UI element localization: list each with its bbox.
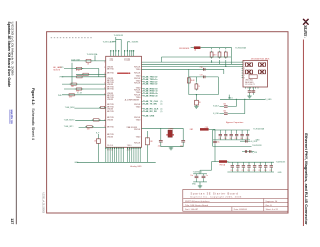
resistor R35 [195, 83, 200, 91]
capacitor C49 plates [202, 175, 209, 178]
junction c34 riser [244, 99, 245, 100]
wire 12v down [199, 170, 201, 174]
wire r33 down [225, 60, 227, 66]
wire term drop 1 [211, 48, 213, 50]
wire stub y141 [240, 140, 251, 142]
ferrite bead FB1 [194, 46, 201, 49]
wire r30 vertical bottom [97, 143, 99, 162]
capacitor C31 [200, 75, 205, 79]
wire VDD33 vertical a [115, 37, 117, 56]
svg-text:C56: C56 [264, 170, 267, 172]
svg-text:C39: C39 [219, 138, 222, 140]
svg-text:XILINX: XILINX [303, 24, 308, 37]
wire row6 [62, 94, 106, 96]
wire rowB bottom rail [227, 171, 274, 173]
wire caps top rail [193, 173, 207, 175]
ground 12v caps [198, 185, 202, 188]
svg-text:Schematic Sheet 4: Schematic Sheet 4 [31, 108, 35, 140]
svg-text:TL4E_MDIO: TL4E_MDIO [64, 119, 75, 121]
title block h-line 2 [183, 202, 288, 204]
connector J8 magjack body [243, 60, 268, 87]
ferrite bead FB2 [200, 128, 209, 131]
svg-text:TXD0: TXD0 [136, 69, 141, 71]
junction RXP [225, 66, 226, 67]
wire c33 left [219, 106, 224, 108]
svg-text:C53: C53 [247, 170, 250, 172]
svg-text:VDD33: VDD33 [107, 120, 113, 122]
wire vddrx vertical [126, 42, 128, 57]
wire MII stub ticks [142, 77, 143, 116]
red label c38 values [205, 127, 208, 131]
transformer coils inside J8 [246, 62, 266, 74]
svg-text:TL4E_TXD<3>: TL4E_TXD<3> [143, 83, 158, 86]
U5 top pin numbers [110, 58, 130, 62]
svg-text:LED1 LED2: LED1 LED2 [245, 80, 253, 82]
svg-text:VDD33: VDD33 [107, 137, 113, 139]
svg-text:22p: 22p [158, 145, 161, 147]
wire RXN [142, 68, 224, 70]
wire TX step riser [161, 57, 163, 62]
wire stub y146 [213, 145, 252, 147]
wire r37 top [146, 131, 148, 139]
title block h-line 1 [183, 198, 288, 200]
capacitor C30 [200, 67, 205, 71]
svg-text:C34: C34 [223, 111, 226, 113]
svg-text:TL4E_TX_EN: TL4E_TX_EN [143, 103, 157, 106]
svg-text:C51: C51 [236, 170, 239, 172]
svg-text:RXCLK: RXCLK [134, 72, 141, 74]
svg-text:TL4E_TX_CLK: TL4E_TX_CLK [143, 100, 158, 103]
wire fb1 left [191, 47, 194, 49]
resistor R29 [85, 126, 93, 131]
svg-text:E_LNK: E_LNK [213, 113, 219, 115]
svg-text:UG230 (v1.0) March 9, 2006: UG230 (v1.0) March 9, 2006 [11, 22, 15, 77]
wire 12v horiz [200, 169, 212, 171]
svg-text:.1u: .1u [206, 175, 208, 177]
U5 bottom pin numbers inside [107, 145, 132, 147]
svg-text:C40: C40 [224, 138, 227, 140]
svg-text:L_VDDRX: L_VDDRX [130, 42, 139, 44]
ferrite bead FB3 [219, 160, 227, 163]
svg-text:J8 10/100 RJ45 JACK: J8 10/100 RJ45 JACK [251, 57, 270, 60]
svg-text:UG230_c4_02_030906: UG230_c4_02_030906 [42, 193, 44, 214]
net label suffix marks [160, 101, 163, 113]
svg-text:1 2 3 4 5 6 7 8: 1 2 3 4 5 6 7 8 [245, 84, 255, 86]
wire TXP [142, 61, 244, 63]
wire vccaux stub [112, 41, 115, 43]
J8 lower pin marks [245, 80, 255, 87]
wire c33 right [228, 106, 237, 108]
wire chassis vertical [228, 95, 230, 100]
svg-text:VDD33: VDD33 [107, 84, 113, 86]
svg-text:Doc#: 500-087: Doc#: 500-087 [185, 209, 199, 211]
wire vertical join x72 [71, 63, 73, 84]
svg-text:RXCLK: RXCLK [134, 83, 141, 85]
svg-text:C50: C50 [231, 170, 234, 172]
svg-text:TL4E_MDC: TL4E_MDC [65, 107, 76, 109]
wire row5 [64, 88, 106, 90]
svg-text:TL4VDD33A: TL4VDD33A [235, 46, 246, 49]
faint revision note row [51, 37, 92, 38]
capacitor C36a [245, 150, 246, 153]
wire r37 bottom [146, 145, 148, 163]
wire xtal left vert [160, 128, 162, 140]
svg-text:VDD33: VDD33 [107, 99, 113, 101]
wire fb3 right [227, 161, 229, 164]
wire fb2 drop upper [214, 129, 216, 141]
wire r30 vertical top [97, 134, 99, 139]
wire rbias right vertical [217, 77, 219, 95]
wire rbias drop corner [223, 69, 225, 74]
svg-text:TL4VDD33: TL4VDD33 [276, 161, 285, 163]
svg-text:TL4VDD33A: TL4VDD33A [87, 53, 98, 56]
wire rail drop to jack [231, 48, 233, 65]
junction c33 riser [236, 99, 237, 100]
wire top rail [200, 47, 231, 49]
capacitor C46 plates [158, 141, 163, 148]
wire rowA feed [212, 130, 214, 146]
crystal X1 side pins [166, 134, 174, 135]
svg-text:C41: C41 [229, 138, 232, 140]
wire c34 riser [244, 99, 246, 113]
wire xtal gnd bar [161, 146, 183, 148]
ground crystal [169, 147, 173, 150]
wire fb3 left [212, 161, 220, 163]
wire term drop 2 [219, 48, 221, 50]
wire c48 vb [196, 178, 198, 182]
capacitor C47 plates [180, 141, 185, 148]
resistor R34 [187, 76, 194, 84]
svg-text:SDI/O B: SDI/O B [53, 69, 60, 71]
wire rbias mid vertical [195, 77, 197, 82]
svg-text:Sheet: 4 of 11: Sheet: 4 of 11 [266, 208, 279, 211]
wire mdc [74, 107, 105, 109]
svg-text:Date: 03/09/06: Date: 03/09/06 [234, 208, 248, 211]
svg-text:E_GND: E_GND [265, 99, 272, 101]
capacitor row A (C39-C44) [219, 130, 250, 140]
wire j8 shield drop a [249, 87, 251, 90]
svg-text:E_TX: E_TX [77, 92, 82, 94]
wire chassis rail [220, 98, 265, 100]
capacitor C35 [252, 91, 256, 92]
wire feed vertical x95 [94, 55, 96, 61]
svg-text:Spartan 3E Starter Board: Spartan 3E Starter Board [191, 192, 239, 196]
wire c34 right [228, 113, 245, 115]
header rule (red) [302, 40, 304, 227]
svg-text:Bypass Capacitors: Bypass Capacitors [226, 121, 243, 124]
U5 bottom pin numbers outside [107, 150, 131, 152]
svg-text:TL4VDD12: TL4VDD12 [193, 171, 202, 173]
ground j8 shield [247, 95, 251, 98]
svg-text:49.9: 49.9 [213, 54, 216, 56]
resistor R28 [92, 119, 101, 121]
junction TXP [211, 62, 212, 63]
svg-text:1K: 1K [199, 102, 201, 104]
svg-text:Engineer: JH: Engineer: JH [266, 201, 278, 203]
footer rule [15, 21, 17, 224]
wire RXP [142, 65, 244, 67]
svg-text:TL4E_CRS: TL4E_CRS [143, 114, 155, 117]
svg-text:75: 75 [198, 86, 200, 88]
wire rowA bottom rail [213, 139, 250, 141]
wire rbias bottom [189, 94, 219, 96]
svg-text:XTAL1/CLKIN: XTAL1/CLKIN [127, 126, 138, 129]
resistor R22 [81, 73, 89, 75]
wire row2 [64, 68, 99, 70]
crystal X1 [168, 130, 172, 137]
svg-text:E_VDD: E_VDD [251, 141, 258, 143]
svg-text:SHLD SHLD: SHLD SHLD [245, 82, 254, 84]
svg-text:RXCLK: RXCLK [134, 143, 141, 145]
wire 12v drop [211, 162, 213, 171]
svg-text:E_ACT: E_ACT [213, 104, 220, 107]
capacitor C32 [248, 91, 255, 93]
svg-text:E_TRD: E_TRD [252, 152, 258, 154]
svg-text:1K: 1K [94, 141, 96, 143]
title block v-line 1 [263, 199, 265, 212]
svg-text:TL4VDD33A: TL4VDD33A [253, 128, 264, 131]
wire TXN [142, 63, 244, 65]
net labels MII stubs [143, 76, 159, 118]
svg-text:C43: C43 [240, 138, 243, 140]
wire rbias gnd drop [195, 95, 197, 101]
wire eint [79, 127, 106, 129]
svg-text:25MHz: 25MHz [168, 129, 174, 131]
wire rbias mid wire [189, 76, 219, 78]
wire rbias left vertical [188, 69, 190, 94]
wire c33 riser [235, 99, 237, 106]
resistor R25 [75, 88, 83, 93]
U5 left pin numbers [104, 61, 105, 128]
J8 bottom pin stubs [246, 87, 259, 89]
wire stub y151 [242, 151, 254, 153]
resistor R24 [70, 83, 78, 88]
svg-text:7 8 9 0: 7 8 9 0 [127, 145, 132, 147]
wire c48 v [196, 174, 198, 176]
svg-text:C54: C54 [253, 170, 256, 172]
resistor R31 [210, 51, 216, 59]
U5 bottom pin pads [105, 148, 141, 149]
capacitor C33 [224, 106, 228, 107]
svg-text:8 1 0: 8 1 0 [110, 60, 114, 62]
svg-text:C42: C42 [235, 138, 238, 140]
svg-text:TL4E_RXD<3>: TL4E_RXD<3> [143, 95, 159, 98]
U5 part name red mark [117, 73, 130, 74]
resistor R37 vertical [145, 138, 149, 145]
svg-text:C57: C57 [270, 170, 273, 172]
resistor R36 vertical [195, 100, 199, 105]
junction rbias [196, 94, 197, 95]
svg-text:Rev: B: Rev: B [266, 205, 273, 207]
svg-text:Figure 4-2:: Figure 4-2: [31, 88, 35, 106]
svg-text:C55: C55 [258, 170, 261, 172]
wire vddrx stub [127, 41, 129, 43]
svg-text:FB2: FB2 [190, 129, 193, 131]
wire row3b [62, 76, 106, 78]
wire c46 down [160, 142, 162, 147]
wire c47 down [182, 142, 184, 147]
U5 right pin names [134, 67, 141, 145]
title block h-line 3 [183, 206, 288, 208]
wire comb below U5 [106, 147, 140, 162]
title block outline [183, 190, 288, 212]
svg-text:MII TXD: MII TXD [107, 127, 114, 129]
wire row2 riser [98, 69, 100, 77]
svg-text:Digilent Inc. Copyright 2005,: Digilent Inc. Copyright 2005, 2006 [191, 196, 242, 199]
svg-text:TL4E_RST: TL4E_RST [71, 59, 81, 61]
svg-text:GND: GND [278, 172, 283, 174]
svg-text:MII TXD: MII TXD [107, 68, 114, 70]
wire j8 shield drop d [252, 93, 254, 95]
svg-text:www.xilinx.com: www.xilinx.com [10, 109, 14, 124]
wire term drop 3 [225, 48, 227, 50]
svg-text:TL4VDD33: TL4VDD33 [114, 35, 123, 37]
wire rowA top rail [213, 129, 250, 131]
wire j8 shield drop c [252, 87, 254, 90]
resistor R33 [224, 51, 227, 59]
resistor R23 [75, 76, 83, 78]
wire VDD33 jog [116, 38, 121, 40]
svg-text:GND: GND [192, 184, 197, 186]
svg-text:7 9 3 5 2: 7 9 3 5 2 [124, 60, 130, 62]
svg-text:C31: C31 [200, 75, 203, 77]
wire TX stepped pair [162, 56, 232, 58]
wire VDD33 vertical b [120, 39, 122, 56]
svg-text:49.9: 49.9 [69, 97, 72, 99]
title block text [185, 192, 279, 211]
svg-text:12.4K: 12.4K [191, 80, 195, 82]
svg-text:TXD0: TXD0 [136, 97, 141, 99]
wire xtal right vert [182, 128, 184, 140]
U5 left pin names [107, 66, 114, 138]
svg-text:TL4VCCAUX: TL4VCCAUX [103, 41, 115, 44]
capacitor C34 [224, 113, 228, 114]
ground rbias [194, 105, 198, 108]
wire fb2 drop lower [214, 143, 216, 161]
svg-text:Spartan-3E Starter Kit Board U: Spartan-3E Starter Kit Board User Guide [7, 22, 11, 88]
svg-text:MII TXD: MII TXD [107, 111, 114, 113]
svg-text:TXD0: TXD0 [136, 137, 141, 139]
wire r31 down [211, 60, 213, 62]
J8 inner box [249, 75, 257, 79]
capacitor C37 [213, 141, 220, 143]
wire mdio [75, 120, 106, 122]
schematic frame border [47, 32, 288, 213]
svg-text:12K: 12K [150, 141, 153, 143]
capacitor C36b [250, 150, 251, 153]
svg-text:TL4VDDRX: TL4VDDRX [252, 145, 262, 147]
svg-text:MII TXD: MII TXD [107, 89, 114, 91]
wire caps gnd v [199, 182, 201, 185]
U5 top pin stubs [111, 51, 134, 57]
U5 top pin pads [110, 50, 134, 51]
svg-text:C30: C30 [200, 67, 203, 69]
wire j8 shield drop b [249, 93, 251, 95]
IC U5 Ethernet PHY LAN83C185 body [106, 56, 142, 147]
svg-text:WW25 Ethernet Interface: WW25 Ethernet Interface [185, 200, 210, 203]
J8 inner pin numbers [244, 62, 245, 79]
capacitor C48 plates [190, 175, 198, 178]
wire caps bottom rail [193, 181, 207, 183]
title block v-line 2 [231, 207, 233, 212]
svg-text:TXD0: TXD0 [136, 106, 141, 108]
wire row3a [76, 73, 106, 75]
resistor R27 [99, 106, 106, 108]
xilinx logo X glyph [303, 19, 309, 25]
svg-text:22p: 22p [180, 145, 183, 147]
svg-text:GND1: GND1 [228, 98, 233, 100]
resistor R20 [85, 59, 93, 62]
svg-text:Title: S3E Starter Board: Title: S3E Starter Board [185, 204, 209, 207]
red annotation AD_LABS [53, 66, 62, 71]
svg-text:Analog GND: Analog GND [130, 165, 142, 168]
capacitor C45 [246, 140, 247, 143]
capacitor row B (C50-C57) [231, 162, 274, 172]
svg-text:C44: C44 [246, 138, 249, 140]
svg-text:A_CONFIG/MDINT: A_CONFIG/MDINT [125, 99, 139, 102]
svg-text:137: 137 [10, 218, 14, 224]
svg-text:10u: 10u [190, 175, 193, 177]
svg-text:C33: C33 [223, 104, 226, 106]
wire row4 [62, 83, 106, 85]
svg-text:FB1 BLM18: FB1 BLM18 [179, 48, 189, 50]
wire analog gnd rail [77, 161, 156, 163]
svg-text:GND: GND [74, 162, 79, 164]
resistor R30 vertical [97, 139, 101, 144]
wire xtal top [142, 127, 184, 129]
resistor R21 [75, 67, 83, 72]
svg-text:TL4E_INT#: TL4E_INT# [64, 126, 75, 128]
svg-text:TL4E_RX_DV: TL4E_RX_DV [143, 110, 157, 113]
wire c49 v [203, 174, 205, 176]
wire row1 [71, 60, 106, 62]
wire r32 down [219, 60, 221, 64]
wire c49 vb [203, 178, 205, 182]
svg-text:TXD0: TXD0 [136, 120, 141, 122]
svg-text:Ethernet PHY, Magnetics, and R: Ethernet PHY, Magnetics, and RJ-45 Conne… [304, 133, 308, 225]
wire fb2 right [209, 128, 215, 130]
svg-text:MII TXD: MII TXD [107, 72, 114, 74]
J8 left pin stubs [242, 62, 243, 77]
svg-text:C52: C52 [242, 170, 245, 172]
svg-text:2 3 4 5 6: 2 3 4 5 6 [107, 145, 113, 147]
resistor R32 [218, 51, 221, 59]
wire c34 left [219, 113, 224, 115]
svg-text:10u: 10u [217, 142, 220, 144]
resistor R26 [68, 94, 76, 99]
wire rowB top rail [227, 161, 274, 163]
